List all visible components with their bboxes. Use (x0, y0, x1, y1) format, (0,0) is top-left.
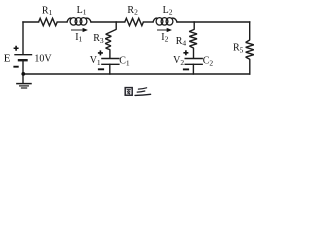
svg-text:C1: C1 (119, 56, 130, 68)
svg-text:R5: R5 (233, 43, 244, 55)
svg-text:C2: C2 (203, 56, 214, 68)
svg-text:L1: L1 (77, 5, 87, 17)
svg-text:L2: L2 (163, 5, 173, 17)
svg-text:I1: I1 (75, 32, 82, 44)
svg-text:R1: R1 (42, 5, 53, 17)
svg-text:R3: R3 (93, 33, 104, 45)
svg-text:10V: 10V (34, 53, 52, 64)
svg-text:V2: V2 (173, 55, 184, 67)
svg-text:R2: R2 (127, 5, 138, 17)
svg-text:E: E (4, 52, 11, 64)
svg-text:R4: R4 (176, 36, 187, 48)
svg-text:I2: I2 (161, 32, 168, 44)
svg-text:V1: V1 (90, 55, 101, 67)
